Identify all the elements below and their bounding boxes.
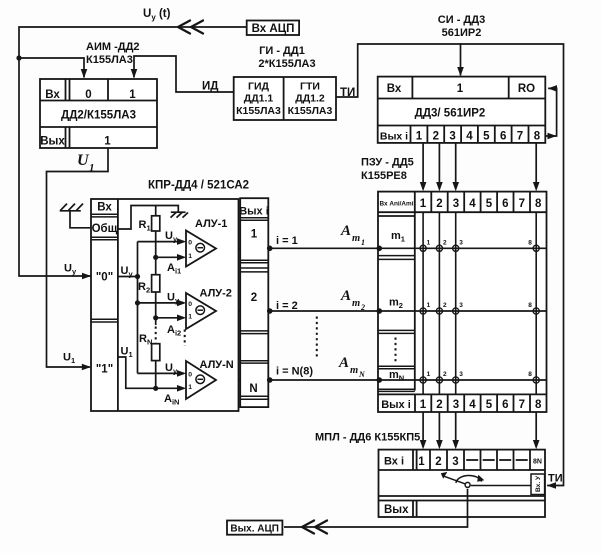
svg-text:0: 0 bbox=[188, 371, 192, 378]
crosspoint taps row m1 bbox=[420, 245, 539, 383]
svg-text:0: 0 bbox=[188, 240, 192, 247]
svg-text:2: 2 bbox=[435, 456, 441, 468]
svg-text:1: 1 bbox=[129, 89, 136, 101]
junction dot on left bus bbox=[16, 55, 21, 60]
resistor R1 bbox=[155, 206, 157, 216]
svg-text:СИ - ДД3: СИ - ДД3 bbox=[438, 14, 485, 26]
svg-text:3: 3 bbox=[453, 399, 459, 411]
block DD3 561IR2 bbox=[378, 77, 546, 143]
svg-text:3: 3 bbox=[459, 371, 463, 378]
svg-text:A: A bbox=[340, 288, 351, 304]
left column separator bands bbox=[91, 214, 118, 322]
svg-text:0: 0 bbox=[188, 301, 192, 308]
svg-text:8: 8 bbox=[535, 399, 542, 411]
box Vx ACP bbox=[247, 21, 299, 36]
svg-text:7: 7 bbox=[517, 131, 523, 143]
svg-text:0: 0 bbox=[85, 89, 91, 101]
wire Uy to ALU-N bbox=[138, 372, 185, 374]
svg-text:Вых: Вых bbox=[40, 136, 65, 148]
svg-text:6: 6 bbox=[502, 198, 508, 210]
svg-text:Общ: Общ bbox=[92, 223, 118, 235]
dotted ellipsis between op-amps bbox=[184, 330, 186, 347]
svg-text:4: 4 bbox=[469, 399, 476, 411]
svg-text:2: 2 bbox=[436, 399, 442, 411]
svg-text:К155ЛА3: К155ЛА3 bbox=[86, 54, 133, 66]
arrowhead SI into DD3 bbox=[457, 67, 464, 76]
svg-text:3: 3 bbox=[452, 456, 458, 468]
svg-text:i = 2: i = 2 bbox=[276, 300, 298, 312]
wire Uy(t) input from Vx ACP to left bus bbox=[19, 27, 248, 276]
svg-text:АИМ -ДД2: АИМ -ДД2 bbox=[86, 41, 140, 53]
svg-text:К155ЛА3: К155ЛА3 bbox=[288, 105, 333, 117]
svg-text:1: 1 bbox=[427, 371, 431, 378]
svg-text:7: 7 bbox=[519, 399, 525, 411]
dotted ellipsis in m column bbox=[395, 338, 397, 363]
wires DD3 outputs 1,2,3,8 down to PZU bbox=[423, 143, 536, 189]
svg-text:Вх i: Вх i bbox=[384, 456, 404, 468]
svg-text:Вых. АЦП: Вых. АЦП bbox=[230, 524, 279, 535]
svg-text:1: 1 bbox=[416, 131, 423, 143]
svg-text:3: 3 bbox=[449, 131, 455, 143]
svg-text:АЛУ-N: АЛУ-N bbox=[200, 359, 234, 371]
svg-text:1: 1 bbox=[188, 253, 192, 260]
svg-text:RO: RO bbox=[518, 83, 535, 95]
svg-text:ГИД: ГИД bbox=[248, 81, 269, 93]
svg-text:2: 2 bbox=[251, 292, 257, 304]
svg-text:1: 1 bbox=[188, 384, 192, 391]
svg-text:3: 3 bbox=[459, 302, 463, 309]
svg-text:АЛУ-2: АЛУ-2 bbox=[200, 288, 232, 300]
wire Uy to ALU-1 bbox=[138, 241, 185, 243]
wire Ai2 to ALU-2 bbox=[156, 317, 184, 319]
svg-text:561ИР2: 561ИР2 bbox=[442, 27, 482, 39]
arrowhead RO loop top (left into RO) bbox=[548, 85, 557, 92]
svg-text:5: 5 bbox=[486, 399, 493, 411]
svg-text:m: m bbox=[350, 365, 358, 376]
svg-text:Вых: Вых bbox=[384, 504, 409, 516]
block KPR DD4 outer box bbox=[91, 199, 239, 411]
ground at Obshch bbox=[60, 204, 91, 228]
svg-text:2: 2 bbox=[443, 240, 447, 247]
svg-text:1: 1 bbox=[418, 456, 425, 468]
junction Ai2 bbox=[153, 315, 158, 320]
svg-text:2: 2 bbox=[443, 302, 447, 309]
svg-text:m: m bbox=[352, 233, 360, 244]
svg-text:Uy (t): Uy (t) bbox=[143, 8, 171, 22]
svg-text:7: 7 bbox=[519, 198, 525, 210]
wire Am2 row line bbox=[216, 310, 547, 312]
block MPL DD6 bbox=[379, 450, 546, 517]
svg-text:8: 8 bbox=[535, 198, 542, 210]
dotted chain ellipsis bbox=[155, 327, 157, 344]
op-amp ALU-2 bbox=[186, 288, 232, 330]
node dots i lines bbox=[267, 246, 273, 383]
svg-text:Вых i: Вых i bbox=[381, 399, 411, 411]
junction AiN U1 bbox=[153, 386, 158, 391]
svg-text:Вх: Вх bbox=[97, 202, 112, 214]
wire Uy bus vertical bbox=[137, 242, 139, 374]
svg-text:i = N(8): i = N(8) bbox=[276, 366, 313, 378]
svg-text:Вх: Вх bbox=[387, 83, 402, 95]
wire R2 down to Ai2 node bbox=[155, 292, 157, 325]
svg-text:Вых i: Вых i bbox=[239, 206, 269, 218]
svg-text:2*К155ЛА3: 2*К155ЛА3 bbox=[258, 58, 315, 70]
wire Obshch to top rail and ground 2 bbox=[118, 206, 178, 230]
arrowhead into AIM cell1 bbox=[131, 69, 138, 78]
ground at divider top bbox=[171, 212, 189, 217]
svg-text:1: 1 bbox=[427, 240, 431, 247]
svg-text:ДД1.2: ДД1.2 bbox=[295, 93, 325, 105]
arrow chevrons on Uy(t) line bbox=[178, 21, 203, 34]
svg-text:ДД1.1: ДД1.1 bbox=[244, 93, 274, 105]
block PZU DD5 bbox=[378, 192, 547, 412]
wire Uy to ALU-2 bbox=[138, 302, 185, 304]
svg-text:Вх. У: Вх. У bbox=[535, 475, 542, 492]
svg-text:ТИ: ТИ bbox=[548, 473, 563, 485]
box Vx.U bbox=[531, 474, 545, 495]
node dots on PZU left edge bbox=[377, 246, 383, 383]
svg-text:КПР-ДД4 / 521СА2: КПР-ДД4 / 521СА2 bbox=[148, 180, 249, 192]
svg-text:АЛУ-1: АЛУ-1 bbox=[195, 218, 227, 230]
wire "0" cell to Uy bus bbox=[118, 276, 138, 278]
svg-text:ПЗУ - ДД5: ПЗУ - ДД5 bbox=[361, 157, 414, 169]
svg-text:Вых i: Вых i bbox=[380, 131, 408, 143]
PZU internal column wires 1,2,3,8 bbox=[423, 212, 536, 394]
svg-text:ТИ: ТИ bbox=[340, 87, 355, 99]
wire SI down into DD3 bbox=[460, 44, 462, 75]
svg-text:"0": "0" bbox=[96, 272, 113, 284]
wire Am1 row line bbox=[216, 247, 547, 249]
junction Uy alu2 bbox=[135, 300, 140, 305]
svg-text:2: 2 bbox=[360, 303, 365, 312]
svg-text:8: 8 bbox=[534, 131, 541, 143]
arrowhead RO loop bottom (right) bbox=[548, 133, 557, 140]
svg-text:ИД: ИД bbox=[202, 81, 218, 93]
wire AmN row line bbox=[216, 379, 547, 381]
svg-text:4: 4 bbox=[469, 198, 476, 210]
op-amp ALU-N bbox=[186, 359, 234, 399]
wire ID from GID to AIM input 1 bbox=[134, 56, 234, 92]
wire AiN to ALU-N bbox=[156, 387, 184, 389]
svg-text:m: m bbox=[352, 298, 360, 309]
junction Uy "0" bbox=[135, 274, 140, 279]
svg-text:Вх: Вх bbox=[45, 89, 60, 101]
svg-text:A: A bbox=[340, 223, 351, 239]
svg-text:К155ЛА3: К155ЛА3 bbox=[236, 105, 281, 117]
wire TI from GTI up over to right bus down to MPL Vx.U bbox=[336, 44, 564, 486]
switch in MPL bbox=[443, 476, 482, 488]
svg-text:1: 1 bbox=[457, 83, 464, 95]
op-amp ALU-1 bbox=[186, 218, 227, 267]
wire RN down to AiN node bbox=[155, 361, 157, 389]
svg-text:8: 8 bbox=[528, 302, 532, 309]
resistor RN bbox=[152, 344, 160, 361]
svg-text:1: 1 bbox=[89, 162, 95, 174]
arrowhead TI into Vx.U bbox=[547, 482, 556, 489]
svg-text:1: 1 bbox=[104, 136, 111, 148]
arrowhead U1 into KPR "1" bbox=[82, 364, 91, 371]
arrow chevrons on output line bbox=[302, 521, 327, 534]
svg-text:N: N bbox=[249, 383, 257, 395]
svg-text:1: 1 bbox=[427, 302, 431, 309]
svg-text:1: 1 bbox=[420, 399, 427, 411]
arrowhead Uy into KPR "0" bbox=[82, 273, 91, 280]
svg-text:4: 4 bbox=[466, 131, 473, 143]
block GI DD1 bbox=[234, 77, 336, 120]
wire Ai1 to ALU-1 bbox=[156, 256, 184, 258]
m-column separator double lines bbox=[378, 256, 415, 392]
svg-text:3: 3 bbox=[453, 198, 459, 210]
wire U1 from AIM output to KPR "1" input bbox=[47, 148, 109, 367]
svg-text:1: 1 bbox=[251, 229, 258, 241]
svg-text:5: 5 bbox=[486, 198, 493, 210]
svg-text:8: 8 bbox=[528, 371, 532, 378]
svg-text:i = 1: i = 1 bbox=[276, 235, 298, 247]
svg-text:6: 6 bbox=[500, 131, 506, 143]
svg-text:2: 2 bbox=[436, 198, 442, 210]
wire "1" cell to U1 bus bbox=[118, 357, 156, 388]
block AIM DD2 bbox=[40, 79, 157, 148]
wires PZU outputs down to MPL bbox=[423, 412, 536, 447]
wire R1 to R2 bbox=[155, 231, 157, 275]
svg-text:МПЛ - ДД6 К155КП5: МПЛ - ДД6 К155КП5 bbox=[315, 432, 420, 444]
box Vyx. ACP bbox=[227, 521, 282, 535]
svg-text:1: 1 bbox=[188, 314, 192, 321]
svg-text:2: 2 bbox=[433, 131, 439, 143]
svg-text:ГТИ: ГТИ bbox=[300, 81, 320, 93]
junction Ai1 bbox=[153, 255, 158, 260]
dotted ellipsis between i lines bbox=[316, 317, 318, 360]
svg-text:Вх Ani/Ami: Вх Ani/Ami bbox=[380, 201, 414, 208]
svg-text:3: 3 bbox=[459, 240, 463, 247]
svg-text:5: 5 bbox=[483, 131, 490, 143]
wire switch to Vx.U bbox=[471, 485, 531, 487]
svg-text:A: A bbox=[338, 355, 349, 371]
svg-text:6: 6 bbox=[502, 399, 508, 411]
svg-text:К155РЕ8: К155РЕ8 bbox=[361, 170, 407, 182]
arrowheads into op-amps bbox=[177, 238, 186, 245]
svg-text:ДД3/ 561ИР2: ДД3/ 561ИР2 bbox=[415, 108, 486, 120]
wire MPL output down and left bbox=[284, 489, 468, 527]
svg-text:ДД2/К155ЛА3: ДД2/К155ЛА3 bbox=[61, 110, 136, 122]
KPR output column Vyx i bbox=[240, 198, 268, 407]
svg-text:2: 2 bbox=[443, 371, 447, 378]
svg-text:8N: 8N bbox=[533, 459, 542, 466]
resistor R2 bbox=[152, 275, 160, 292]
svg-text:8: 8 bbox=[528, 240, 532, 247]
svg-text:Вх АЦП: Вх АЦП bbox=[252, 23, 295, 35]
svg-text:1: 1 bbox=[361, 238, 365, 247]
svg-text:ГИ - ДД1: ГИ - ДД1 bbox=[259, 45, 305, 57]
svg-text:1: 1 bbox=[420, 198, 427, 210]
wire RO feedback loop bbox=[545, 88, 556, 136]
arrowhead into AIM cell0 bbox=[81, 69, 88, 78]
svg-text:"1": "1" bbox=[96, 364, 113, 376]
wire branch to AIM input 0 bbox=[19, 58, 84, 77]
